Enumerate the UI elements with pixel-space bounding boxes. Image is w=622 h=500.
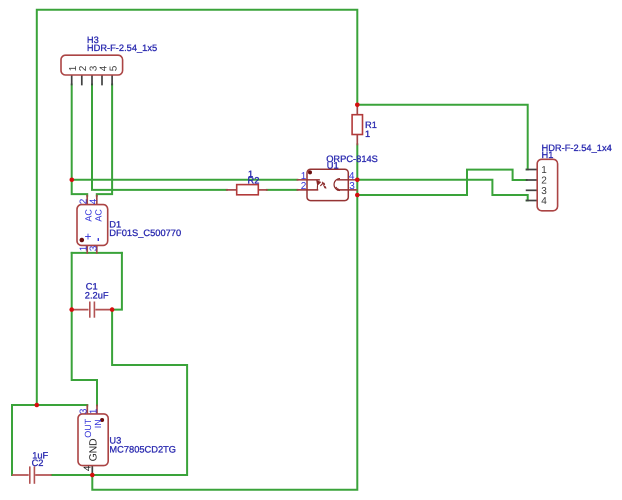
svg-text:3: 3 bbox=[89, 245, 100, 251]
svg-text:1: 1 bbox=[365, 129, 370, 139]
svg-text:1: 1 bbox=[89, 408, 100, 414]
svg-text:U1: U1 bbox=[327, 160, 339, 170]
svg-text:+: + bbox=[85, 230, 92, 244]
svg-text:AC: AC bbox=[83, 209, 93, 222]
svg-text:2.2uF: 2.2uF bbox=[85, 291, 109, 301]
svg-text:GND: GND bbox=[87, 438, 99, 461]
svg-text:R2: R2 bbox=[248, 176, 260, 186]
svg-text:C2: C2 bbox=[32, 458, 44, 468]
svg-text:OUT: OUT bbox=[83, 418, 93, 438]
svg-text:4: 4 bbox=[88, 198, 99, 204]
svg-text:MC7805CD2TG: MC7805CD2TG bbox=[109, 444, 176, 454]
svg-text:H1: H1 bbox=[542, 150, 554, 160]
svg-text:IN: IN bbox=[93, 419, 103, 428]
svg-text:DF01S_C500770: DF01S_C500770 bbox=[109, 228, 181, 238]
svg-text:AC: AC bbox=[93, 209, 103, 222]
svg-text:2: 2 bbox=[301, 181, 307, 192]
svg-text:5: 5 bbox=[109, 65, 120, 71]
svg-text:4: 4 bbox=[83, 465, 94, 471]
svg-text:1: 1 bbox=[541, 165, 547, 176]
svg-text:4: 4 bbox=[541, 196, 547, 207]
svg-text:HDR-F-2.54_1x5: HDR-F-2.54_1x5 bbox=[87, 43, 157, 53]
svg-text:3: 3 bbox=[349, 181, 355, 192]
